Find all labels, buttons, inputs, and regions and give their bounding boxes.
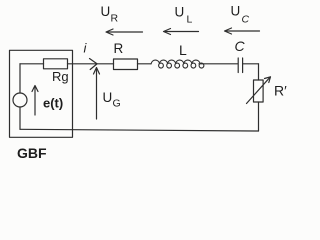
current arrow i bbox=[90, 59, 98, 70]
wire: R to L bbox=[138, 63, 152, 65]
GBF enclosure box bbox=[10, 50, 73, 137]
label L bbox=[179, 42, 187, 58]
arrow U_C bbox=[225, 28, 260, 34]
label U_L bbox=[175, 5, 193, 26]
svg-text:R′: R′ bbox=[274, 83, 287, 99]
svg-text:Rg: Rg bbox=[52, 69, 69, 84]
svg-text:R: R bbox=[111, 13, 119, 25]
svg-text:L: L bbox=[187, 14, 193, 26]
variable resistor R' bbox=[247, 77, 271, 104]
label R bbox=[114, 41, 124, 56]
wire: right vertical down to R' bbox=[258, 64, 260, 80]
svg-text:U: U bbox=[175, 5, 185, 20]
label i bbox=[84, 41, 88, 56]
arrow U_G bbox=[94, 68, 100, 120]
capacitor C plates bbox=[238, 58, 242, 73]
arrow U_R bbox=[106, 29, 143, 35]
label U_R bbox=[101, 4, 119, 25]
wire: below R' down to bottom bbox=[258, 102, 260, 131]
svg-text:U: U bbox=[231, 4, 241, 19]
svg-text:C: C bbox=[235, 38, 246, 54]
arrow e(t) bbox=[32, 86, 38, 116]
svg-text:U: U bbox=[101, 4, 111, 19]
arrow U_L bbox=[164, 29, 199, 35]
source e(t) circle bbox=[13, 93, 27, 107]
label Rg bbox=[52, 69, 69, 84]
label GBF bbox=[17, 145, 47, 161]
wire: inner top (source to Rg) bbox=[20, 63, 44, 65]
wire: L to C bbox=[199, 63, 238, 65]
svg-text:G: G bbox=[113, 98, 121, 110]
label U_G bbox=[103, 90, 121, 110]
svg-text:e(t): e(t) bbox=[43, 96, 63, 111]
svg-text:GBF: GBF bbox=[17, 145, 47, 161]
resistor Rg bbox=[44, 59, 68, 69]
label e(t) bbox=[43, 96, 63, 111]
svg-text:L: L bbox=[179, 42, 187, 58]
svg-text:C: C bbox=[242, 14, 250, 26]
label C bbox=[235, 38, 246, 54]
svg-text:i: i bbox=[84, 41, 88, 56]
wire: inner left vertical below source bbox=[19, 107, 21, 129]
svg-text:U: U bbox=[103, 90, 113, 105]
label R' bbox=[274, 83, 287, 99]
svg-text:R: R bbox=[114, 41, 124, 56]
label U_C bbox=[231, 4, 250, 26]
wire: C to right corner bbox=[243, 63, 259, 65]
wire: top from Rg to R bbox=[68, 63, 114, 65]
inductor L bbox=[151, 60, 204, 68]
wire: inner left vertical above source bbox=[19, 64, 21, 93]
resistor R bbox=[114, 59, 138, 70]
wire: bottom return bbox=[20, 129, 259, 131]
